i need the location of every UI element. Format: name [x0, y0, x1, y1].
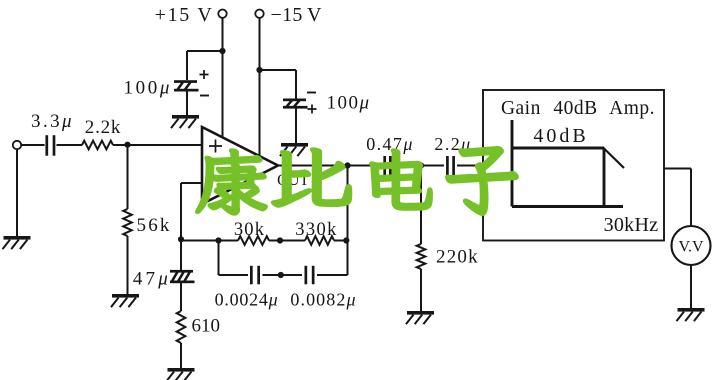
svg-text:47μ: 47μ: [133, 268, 171, 289]
svg-text:0.47μ: 0.47μ: [366, 134, 414, 154]
svg-text:56k: 56k: [137, 215, 172, 236]
svg-text:100μ: 100μ: [124, 78, 172, 99]
svg-text:3.3μ: 3.3μ: [31, 111, 74, 132]
svg-text:330k: 330k: [295, 220, 338, 240]
svg-text:−15 V: −15 V: [271, 4, 322, 26]
svg-text:40dB: 40dB: [533, 125, 588, 147]
svg-text:0.0024μ: 0.0024μ: [215, 290, 279, 310]
svg-text:2.2k: 2.2k: [85, 117, 121, 138]
svg-text:100μ: 100μ: [327, 93, 371, 114]
svg-text:610: 610: [192, 316, 221, 337]
svg-text:+15 V: +15 V: [155, 4, 214, 26]
svg-text:30k: 30k: [234, 220, 265, 240]
svg-text:0.0082μ: 0.0082μ: [290, 290, 356, 310]
svg-text:30kHz: 30kHz: [604, 214, 659, 236]
svg-text:V.V: V.V: [678, 239, 703, 256]
svg-text:220k: 220k: [436, 247, 479, 268]
svg-text:Gain 40dB Amp.: Gain 40dB Amp.: [501, 98, 655, 119]
